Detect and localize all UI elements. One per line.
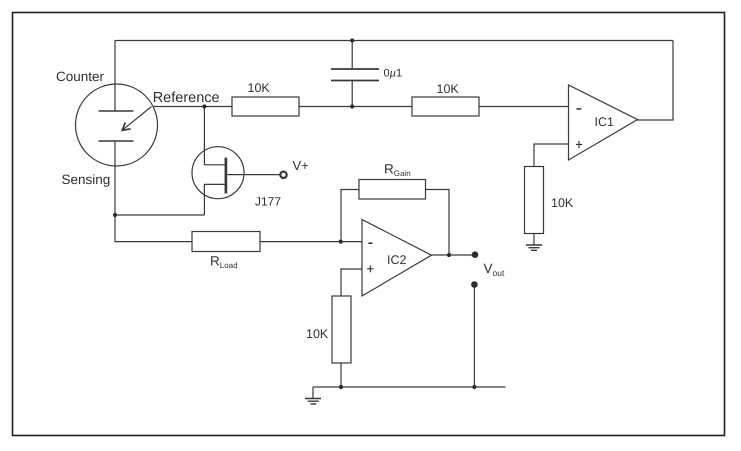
counter electrode plate [99,110,134,112]
junction dot IC2 inverting input [339,240,343,244]
junction dot top rail [350,38,354,42]
arrow reference electrode [124,107,152,130]
wire IC2 output [432,254,473,256]
op-amp IC2 [362,220,432,297]
svg-text:Reference: Reference [153,90,220,106]
svg-text:10K: 10K [248,81,271,95]
resistor R1 10K [232,97,299,116]
terminal Vout top [472,251,479,258]
junction dot sensing [113,213,117,217]
svg-text:10K: 10K [306,327,329,341]
terminal V+ [280,172,286,178]
resistor R3 10K [525,167,544,234]
ground G1 [526,245,542,250]
wire counter electrode to top rail [114,41,116,112]
wire R3 to ground [533,234,535,246]
svg-text:IC2: IC2 [387,253,407,267]
wire R4 to ground line [340,363,342,387]
wire R2 to IC1 inverting input [479,106,569,108]
wire reference node [153,106,232,108]
svg-text:10K: 10K [551,196,574,210]
wire ground line [313,386,506,388]
sensing electrode plate [99,140,134,142]
ground G2 [312,387,314,399]
wire R1 to capacitor node [299,106,412,108]
junction dot reference/gate [202,104,206,108]
wire RLoad to IC2 inverting input [260,241,362,243]
resistor R4 10K [332,296,351,363]
transistor Q1 J177 [192,147,244,199]
label plus IC1 [576,141,582,148]
junction dot R4 ground [339,385,343,389]
wire IC2 non-inverting input [341,269,362,296]
svg-text:J177: J177 [255,195,281,209]
op-amp IC1 [569,85,638,160]
wire top rail [115,40,673,42]
label minus IC1 [577,108,582,110]
svg-text:10K: 10K [437,82,460,96]
resistor RLoad [192,232,260,252]
label plus IC2 [367,266,373,273]
wire IC1 non-inverting input [534,144,569,167]
wire RGain right leg [426,190,450,256]
resistor R2 10K [412,97,479,116]
wire sensing to RLoad [115,215,192,242]
wire RGain left leg [341,190,359,242]
wire sensing node [115,141,204,215]
junction dot IC2 output [447,253,451,257]
junction dot capacitor bottom [350,104,354,108]
wire Vout return [473,287,475,387]
junction dot Vout ground [472,385,476,389]
svg-text:Counter: Counter [56,69,105,84]
label minus IC2 [368,242,372,244]
sensor capacitor CS (counter/sensing cell) [76,84,158,166]
svg-text:0µ1: 0µ1 [384,68,403,80]
svg-text:IC1: IC1 [595,115,615,129]
capacitor C1 0u1 [351,41,353,70]
wire IC1 output feedback to top rail [638,41,674,121]
svg-text:Sensing: Sensing [62,172,111,187]
terminal Vout bottom [471,281,478,288]
svg-text:V+: V+ [293,158,309,173]
resistor RGain [359,180,426,200]
